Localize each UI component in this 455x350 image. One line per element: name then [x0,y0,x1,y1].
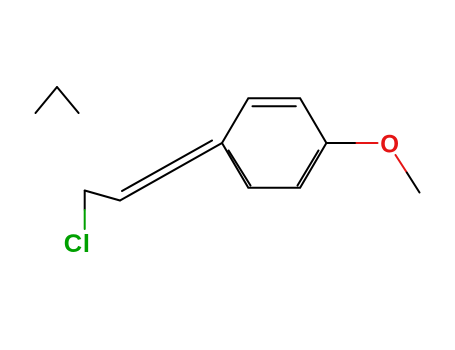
O-CH3 bond black half [407,173,420,193]
C-O bond black half [326,142,356,144]
O atom label [380,131,399,159]
aromatic inner line top [253,105,296,107]
long double bond inner line [122,141,212,192]
svg-text:O: O [380,131,399,159]
O-CH3 bond red half [396,155,407,173]
methyl bond left leg [36,87,58,113]
long double bond main line [120,143,222,201]
C-Cl bond black half [84,191,86,211]
short bond to vinyl carbon [85,191,120,201]
benzene ring [222,98,326,187]
C-O bond red half [357,142,378,144]
methyl bond right leg [57,87,79,113]
aromatic inner line bottom-left [229,151,251,186]
svg-text:Cl: Cl [64,230,91,258]
Cl bond green half [84,210,86,229]
aromatic inner line bottom-right [298,151,319,186]
